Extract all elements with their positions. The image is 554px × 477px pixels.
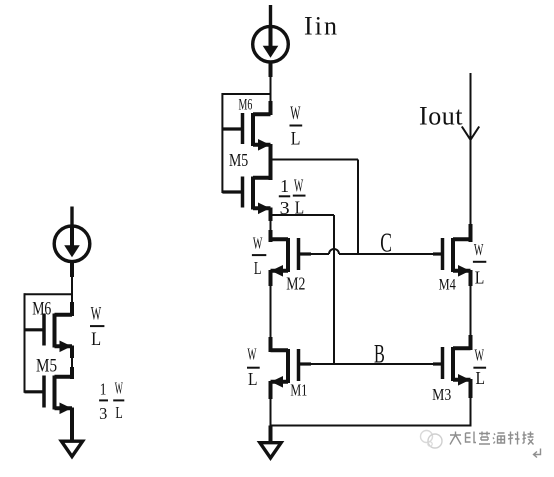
ground rail: [270, 425, 472, 427]
current source Iin: [253, 26, 289, 62]
wire: [269, 381, 273, 427]
transistor M6 (left): [44, 314, 72, 353]
svg-text:M2: M2: [286, 273, 305, 293]
wire node M6/M5 to node C column: [271, 160, 359, 255]
transistor M2: [271, 238, 312, 277]
label W/L for M2: [252, 233, 266, 278]
svg-text:M5: M5: [229, 150, 248, 170]
svg-text:W: W: [91, 304, 102, 324]
current source (left bias): [54, 226, 90, 262]
svg-text:L: L: [475, 268, 485, 288]
svg-text:L: L: [291, 130, 301, 150]
gate lead M4: [433, 252, 444, 255]
svg-text:M6: M6: [239, 97, 253, 114]
svg-text:L: L: [476, 368, 486, 388]
svg-text:L: L: [248, 369, 258, 389]
wire: [70, 346, 74, 380]
wire: [269, 5, 272, 28]
svg-text:Iin: Iin: [304, 12, 337, 41]
ground (main): [260, 443, 281, 458]
wire: [70, 262, 74, 317]
svg-text:W: W: [475, 346, 485, 365]
label W/L for M3: [473, 346, 486, 388]
svg-text:M1: M1: [290, 381, 307, 400]
svg-text:1: 1: [100, 380, 107, 399]
wire: [469, 224, 473, 242]
svg-text:C: C: [380, 228, 392, 258]
gate bias loop (left): [25, 293, 73, 393]
wire: [269, 270, 273, 352]
svg-text:M6: M6: [32, 299, 51, 320]
svg-text:1: 1: [280, 176, 289, 196]
svg-text:W: W: [474, 240, 484, 259]
svg-text:M3: M3: [432, 385, 451, 404]
label W/L for left M6: [90, 304, 104, 350]
label W/L for M6: [290, 104, 303, 149]
node B wire: [311, 363, 433, 365]
svg-text:L: L: [115, 403, 122, 422]
wire: [469, 379, 473, 427]
wire: [269, 426, 273, 442]
watermark logo: [421, 431, 443, 449]
wire: [70, 408, 74, 440]
svg-text:Iout: Iout: [419, 102, 463, 131]
svg-text:B: B: [374, 339, 385, 369]
Iout line with arrow: [462, 73, 479, 226]
transistor M4: [443, 238, 471, 277]
gate bias loop (main M6/M5): [222, 93, 270, 193]
svg-text:L: L: [254, 258, 262, 278]
label 1/3 W/L for left M5: [99, 379, 124, 423]
watermark text (hand-drawn CJK strokes): [450, 432, 534, 445]
wire: [269, 62, 273, 116]
svg-text:W: W: [253, 233, 263, 252]
wire: [269, 208, 273, 243]
svg-text:M4: M4: [439, 276, 456, 293]
svg-text:W: W: [115, 379, 124, 398]
wire: [269, 144, 273, 180]
transistor M6: [243, 113, 271, 151]
label 1/3 W/L for M5: [279, 175, 306, 218]
wire: [70, 207, 73, 229]
node C wire with hop over crossing: [311, 249, 433, 254]
transistor M5 (left): [44, 376, 72, 415]
svg-text:L: L: [91, 330, 101, 350]
wire M5 source to node B column: [271, 215, 335, 364]
ground (left): [61, 441, 82, 456]
transistor M3: [443, 347, 471, 386]
wire: [469, 270, 473, 350]
label W/L for M4: [473, 240, 486, 288]
transistor M5: [243, 177, 271, 215]
svg-text:M5: M5: [36, 357, 57, 377]
svg-text:W: W: [294, 175, 303, 195]
transistor M1: [271, 349, 312, 388]
label W/L for M1: [247, 345, 260, 389]
gate lead M3: [433, 362, 444, 365]
watermark return mark: [534, 449, 541, 458]
svg-text:W: W: [290, 104, 301, 124]
svg-text:3: 3: [99, 404, 107, 423]
svg-text:W: W: [247, 345, 257, 364]
